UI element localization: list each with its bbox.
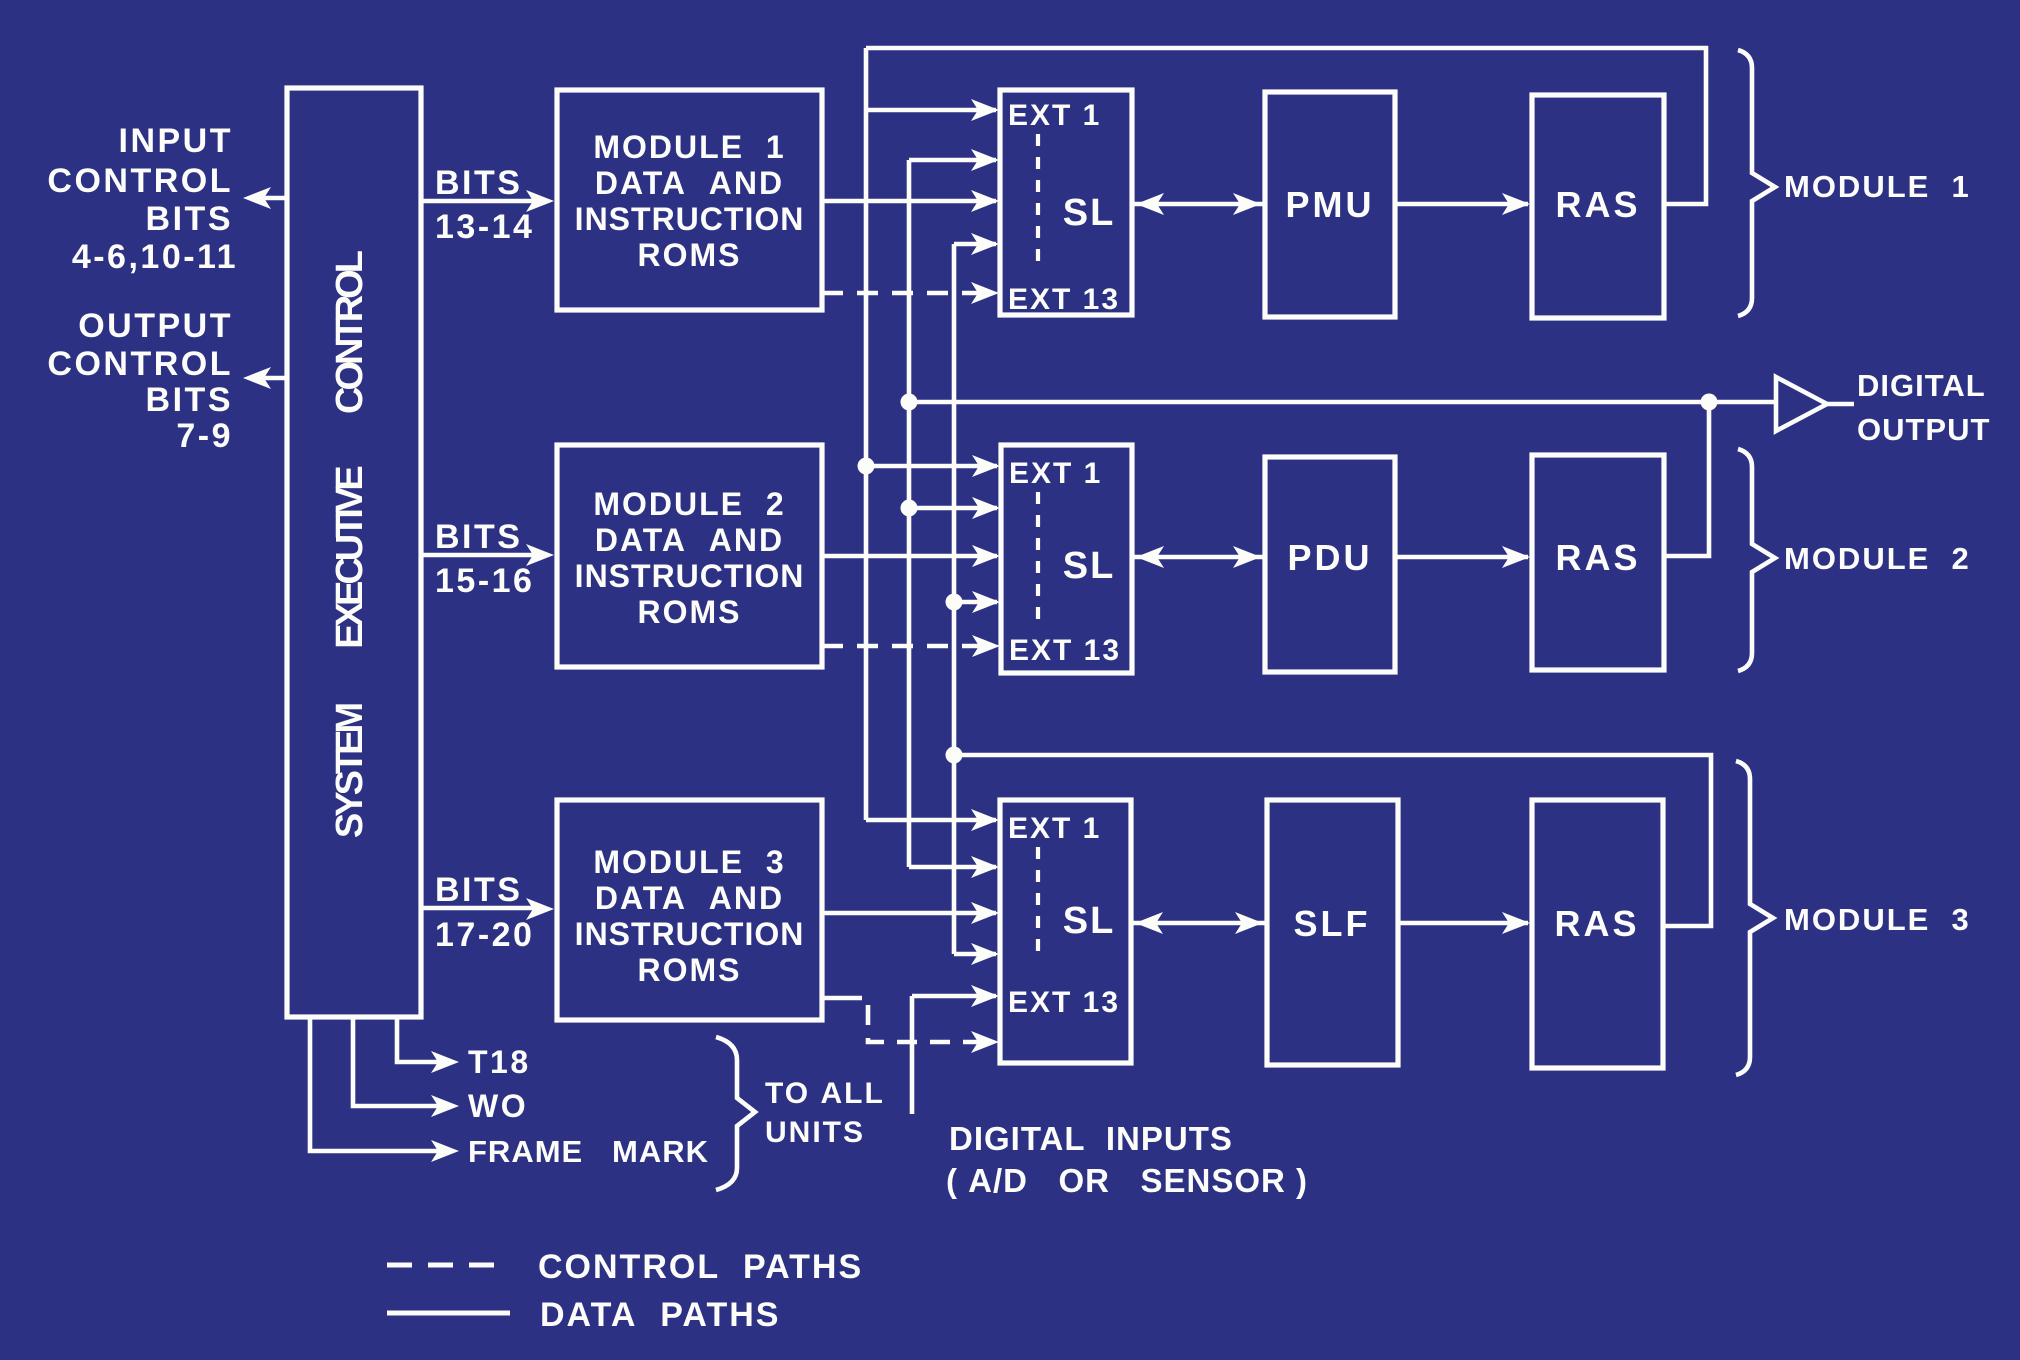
wire vertical bus A x866: [864, 48, 869, 820]
wire m3 row2: [909, 856, 999, 878]
block SLF: [1267, 800, 1398, 1065]
wire FRAME MARK: [310, 1017, 459, 1162]
label DIGITAL INPUTS (A/D OR SENSOR): [946, 1120, 1308, 1199]
svg-text:BITS: BITS: [146, 381, 233, 419]
svg-text:MODULE 1: MODULE 1: [1784, 169, 1971, 204]
wire PDU-RAS: [1395, 546, 1530, 568]
label BITS 15-16: [435, 518, 534, 600]
wire vertical bus B x909: [907, 160, 912, 867]
svg-text:DATA AND: DATA AND: [595, 165, 784, 201]
svg-text:SLF: SLF: [1294, 903, 1371, 944]
svg-text:BITS: BITS: [435, 871, 522, 909]
svg-text:FRAME MARK: FRAME MARK: [468, 1134, 709, 1169]
brace module 2: [1738, 449, 1775, 671]
label MODULE 1: [1784, 169, 1971, 204]
svg-text:DATA AND: DATA AND: [595, 522, 784, 558]
brace to all units: [716, 1037, 755, 1190]
block EXT1/SL/EXT13 module 1: [1000, 90, 1132, 316]
label BITS 17-20: [435, 871, 534, 954]
block MODULE 2 DATA AND INSTRUCTION ROMS: [557, 445, 822, 667]
block U1 SYSTEM EXECUTIVE CONTROL: [287, 88, 421, 1017]
label TO ALL UNITS: [765, 1077, 885, 1149]
legend data paths: [387, 1296, 780, 1334]
svg-text:ROMS: ROMS: [638, 952, 742, 988]
svg-text:MODULE 3: MODULE 3: [1784, 902, 1971, 937]
wire input control bits: [243, 187, 287, 209]
svg-text:INSTRUCTION: INSTRUCTION: [575, 201, 805, 237]
wire SL-PDU: [1132, 546, 1265, 568]
node junction x954/y602: [946, 594, 963, 611]
label MODULE 2: [1784, 541, 1971, 576]
label INPUT CONTROL BITS 4-6,10-11: [47, 122, 238, 276]
label SYSTEM EXECUTIVE CONTROL (vertical): [329, 250, 371, 838]
block RAS module 2: [1532, 455, 1664, 670]
wire SL-PMU: [1132, 193, 1265, 215]
svg-text:SL: SL: [1063, 545, 1116, 587]
svg-text:TO ALL: TO ALL: [765, 1077, 885, 1110]
svg-text:INSTRUCTION: INSTRUCTION: [575, 916, 805, 952]
wire bits 15-16: [421, 544, 554, 566]
label OUTPUT CONTROL BITS 7-9: [47, 307, 233, 455]
block MODULE 3 DATA AND INSTRUCTION ROMS: [557, 800, 822, 1020]
svg-text:DIGITAL INPUTS: DIGITAL INPUTS: [949, 1120, 1233, 1157]
legend control paths: [387, 1248, 863, 1286]
wire m3 row4: [954, 943, 999, 965]
wire m2 row2: [909, 497, 1000, 519]
wire m2 ext1 row: [866, 455, 1000, 477]
wire bits 17-20: [421, 898, 554, 920]
label T18: [468, 1044, 531, 1080]
svg-text:EXECUTIVE: EXECUTIVE: [329, 467, 371, 649]
svg-text:SL: SL: [1063, 900, 1116, 942]
wire PMU-RAS: [1395, 193, 1530, 215]
svg-text:INPUT: INPUT: [119, 122, 234, 160]
brace module 1: [1738, 50, 1775, 316]
svg-text:15-16: 15-16: [435, 562, 534, 600]
node junction x954/y755: [946, 747, 963, 764]
wire m3 ext1 row: [866, 809, 999, 831]
wire T18: [397, 1017, 459, 1073]
wire m2 ext13 row (dashed): [822, 635, 1000, 657]
svg-text:EXT 1: EXT 1: [1009, 457, 1102, 490]
block PMU: [1265, 92, 1395, 317]
wire m2 SL row: [822, 545, 1000, 567]
svg-text:EXT 13: EXT 13: [1008, 986, 1120, 1019]
svg-text:EXT 13: EXT 13: [1009, 634, 1121, 667]
brace module 3: [1736, 761, 1773, 1075]
svg-text:MODULE 2: MODULE 2: [593, 486, 785, 522]
wire WO: [353, 1017, 459, 1117]
svg-text:EXT 1: EXT 1: [1008, 812, 1101, 845]
wire bits 13-14: [421, 190, 554, 212]
svg-text:SL: SL: [1063, 192, 1116, 234]
svg-text:CONTROL: CONTROL: [47, 162, 233, 200]
svg-text:7-9: 7-9: [176, 417, 233, 455]
svg-text:T18: T18: [468, 1044, 531, 1080]
svg-text:DATA AND: DATA AND: [595, 880, 784, 916]
svg-text:BITS: BITS: [435, 518, 522, 556]
node junction x866/y466: [858, 458, 875, 475]
svg-text:( A/D OR SENSOR ): ( A/D OR SENSOR ): [946, 1162, 1308, 1199]
svg-text:EXT 13: EXT 13: [1008, 283, 1120, 316]
block EXT1/SL/EXT13 module 3: [1000, 800, 1131, 1063]
buffer digital output: [1776, 377, 1854, 431]
block RAS module 1: [1532, 95, 1664, 318]
label MODULE 3: [1784, 902, 1971, 937]
wire SLF-RAS: [1398, 912, 1530, 934]
label WO: [468, 1088, 528, 1124]
svg-text:PDU: PDU: [1287, 537, 1372, 578]
label FRAME MARK: [468, 1134, 709, 1169]
label BITS 13-14: [435, 164, 534, 246]
svg-text:BITS: BITS: [146, 200, 233, 238]
svg-text:CONTROL: CONTROL: [329, 250, 371, 414]
wire vertical bus C x954: [952, 244, 957, 954]
wire RAS3 feedback bus: [954, 755, 1711, 926]
wire digital inputs feed: [910, 996, 915, 1114]
svg-text:MODULE 1: MODULE 1: [593, 129, 785, 165]
wire output control bits: [243, 367, 287, 389]
svg-text:PMU: PMU: [1286, 184, 1375, 225]
svg-text:MODULE 2: MODULE 2: [1784, 541, 1971, 576]
wire m1 ext13 row (dashed): [822, 282, 999, 304]
svg-text:ROMS: ROMS: [638, 237, 742, 273]
block MODULE 1 DATA AND INSTRUCTION ROMS: [557, 90, 822, 310]
svg-text:CONTROL: CONTROL: [47, 345, 233, 383]
svg-text:OUTPUT: OUTPUT: [1857, 412, 1990, 447]
svg-text:4-6,10-11: 4-6,10-11: [72, 238, 238, 276]
block RAS module 3: [1532, 800, 1663, 1068]
wire m2 row4: [954, 591, 1000, 613]
svg-text:MODULE 3: MODULE 3: [593, 844, 785, 880]
wire digital output bus: [909, 400, 1776, 405]
block EXT1/SL/EXT13 module 2: [1001, 445, 1132, 673]
svg-text:OUTPUT: OUTPUT: [78, 307, 233, 345]
wire m3 ext13 row (dashed): [822, 998, 999, 1053]
wire m1 row4: [954, 233, 999, 255]
wire m1 ext1 row: [866, 99, 999, 121]
svg-text:DATA PATHS: DATA PATHS: [540, 1296, 780, 1334]
svg-text:WO: WO: [468, 1088, 528, 1124]
wire RAS1 feedback bus: [866, 48, 1706, 204]
svg-text:EXT 1: EXT 1: [1008, 99, 1101, 132]
svg-text:SYSTEM: SYSTEM: [329, 704, 371, 839]
svg-text:RAS: RAS: [1555, 537, 1640, 578]
wire m3 digital input row: [912, 985, 999, 1007]
node junction x909/y508: [901, 500, 918, 517]
svg-text:RAS: RAS: [1555, 184, 1640, 225]
wire m1 row2: [909, 149, 999, 171]
svg-text:17-20: 17-20: [435, 916, 534, 954]
label DIGITAL OUTPUT: [1857, 368, 1990, 447]
wire m3 SL row: [822, 902, 999, 924]
block PDU: [1265, 457, 1395, 672]
wire SL-SLF: [1131, 912, 1267, 934]
svg-text:RAS: RAS: [1554, 903, 1639, 944]
svg-text:INSTRUCTION: INSTRUCTION: [575, 558, 805, 594]
node junction x1709/y402: [1701, 394, 1718, 411]
wire m1 SL row: [822, 190, 999, 212]
svg-text:13-14: 13-14: [435, 208, 534, 246]
wire RAS2 to digital output: [1664, 402, 1709, 556]
svg-text:BITS: BITS: [435, 164, 522, 202]
svg-text:ROMS: ROMS: [638, 594, 742, 630]
svg-text:CONTROL PATHS: CONTROL PATHS: [538, 1248, 863, 1286]
svg-text:UNITS: UNITS: [765, 1116, 865, 1149]
node junction x909/y402: [901, 394, 918, 411]
svg-text:DIGITAL: DIGITAL: [1857, 368, 1986, 403]
